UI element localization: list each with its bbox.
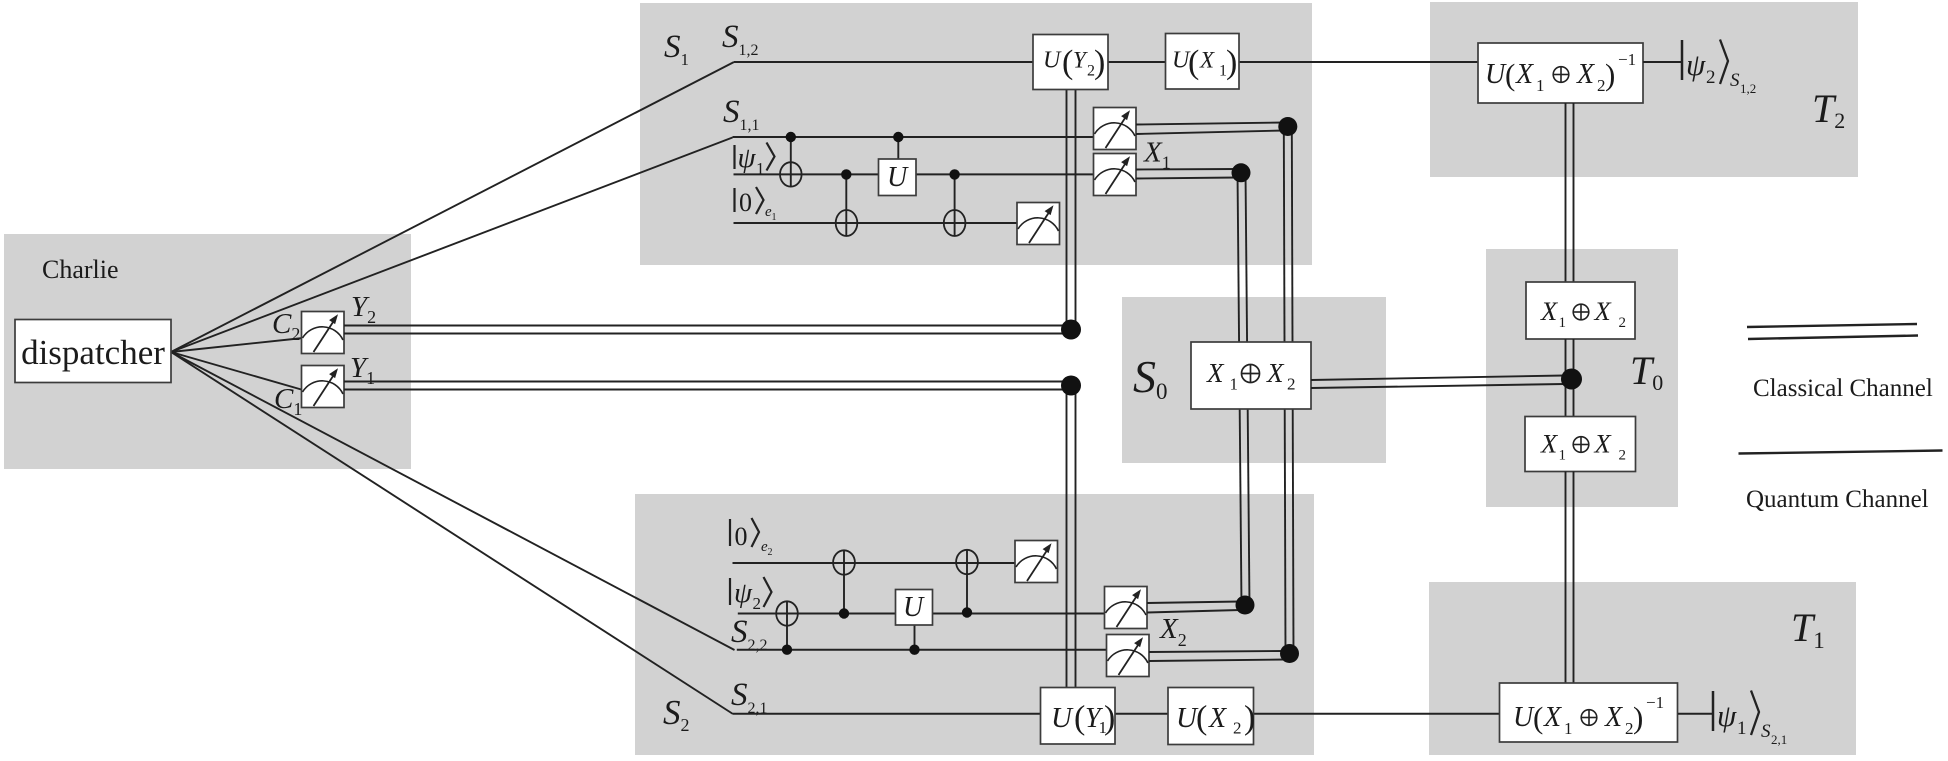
svg-text:X: X <box>1604 702 1623 733</box>
legend quantum channel symbol <box>1739 451 1943 454</box>
svg-text:X: X <box>1540 429 1559 459</box>
svg-text:X: X <box>1515 59 1534 90</box>
svg-text:ψ: ψ <box>1686 47 1706 82</box>
svg-text:): ) <box>1244 700 1255 737</box>
classical vertical pair T0 lower box to T1 <box>1566 472 1574 684</box>
svg-text:X: X <box>1576 59 1595 90</box>
cnot3: control on psi1 target on e1 <box>944 169 966 236</box>
svg-text:−1: −1 <box>1646 693 1664 712</box>
ket |psi1> label <box>735 142 775 178</box>
region S0 <box>1122 297 1386 463</box>
gate U (S1) with control on S1,1 <box>879 132 917 196</box>
wire fan: dispatcher to C2 meter <box>171 338 303 352</box>
node psi2-meter junction <box>1236 596 1255 615</box>
gate U(X1+X2)^-1 (T1) <box>1500 683 1678 742</box>
node X1 junction <box>1232 163 1251 182</box>
svg-text:ψ: ψ <box>734 577 753 609</box>
meter C2 <box>302 312 345 354</box>
gate U(X2) <box>1168 688 1255 745</box>
meter S2,2 <box>1107 635 1150 677</box>
svg-text:U: U <box>903 592 925 623</box>
cnot1: control on S1,1 target on psi1 <box>780 132 802 187</box>
ket |psi2> label <box>730 577 772 613</box>
svg-text:2: 2 <box>768 547 773 558</box>
svg-text:ψ: ψ <box>738 142 757 174</box>
svg-text:(: ( <box>1196 700 1207 737</box>
meter e2 <box>1015 541 1058 583</box>
classical double line Y2 to node <box>344 326 1064 334</box>
svg-text:2: 2 <box>1287 375 1296 394</box>
wire S2,2 <box>737 649 1107 651</box>
ket |0>e1 label <box>735 187 777 223</box>
svg-text:U: U <box>887 162 909 193</box>
classical double line S0 output to T0 node <box>1311 376 1564 389</box>
region T2 <box>1430 2 1858 177</box>
svg-text:X: X <box>1208 703 1227 734</box>
gate X1 xor X2 (S0) <box>1191 342 1311 409</box>
svg-text:X: X <box>1594 296 1613 326</box>
classical vertical pair X1 node down to psi2-meter node <box>1238 172 1250 605</box>
wire fan: dispatcher to S2,1 <box>171 352 733 714</box>
classical vertical pair T0 upper box to node <box>1566 339 1574 379</box>
meter S1,1 <box>1094 108 1137 150</box>
ket |psi2>S12 output <box>1682 40 1756 97</box>
svg-text:X: X <box>1543 702 1562 733</box>
svg-text:Y: Y <box>1073 48 1088 73</box>
gate U(Y2) <box>1033 35 1108 90</box>
wire T2 box to ket <box>1643 61 1681 63</box>
svg-text:0: 0 <box>735 522 748 551</box>
svg-text:2: 2 <box>753 594 762 613</box>
classical double line Y1 to node <box>344 382 1064 390</box>
svg-text:Classical Channel: Classical Channel <box>1753 375 1933 402</box>
svg-text:1: 1 <box>1737 718 1747 739</box>
svg-text:S: S <box>1730 70 1740 91</box>
wire e2 <box>733 562 1016 564</box>
gate X1 xor X2 (T0 upper) <box>1526 282 1635 339</box>
gate U (S2) with control on S2,2 <box>896 590 933 655</box>
region Charlie <box>4 234 411 469</box>
gate U(X1+X2)^-1 (T2) <box>1478 43 1643 103</box>
node S1,1-meter junction <box>1278 117 1297 136</box>
svg-text:): ) <box>1633 700 1643 735</box>
svg-text:U: U <box>1043 48 1062 74</box>
wire e1 <box>734 222 1018 224</box>
svg-text:): ) <box>1094 44 1105 81</box>
meter e1 <box>1017 203 1060 245</box>
wire S1,2 <box>734 61 1478 63</box>
gate X1 xor X2 (T0 lower) <box>1525 417 1636 472</box>
meter psi2 <box>1105 587 1148 629</box>
svg-text:dispatcher: dispatcher <box>21 333 165 372</box>
node Y2 junction <box>1061 320 1081 340</box>
svg-text:1: 1 <box>772 212 777 223</box>
region S1 <box>640 3 1312 265</box>
svg-text:U: U <box>1485 59 1507 90</box>
svg-text:2: 2 <box>1619 448 1627 464</box>
svg-text:U: U <box>1051 702 1074 734</box>
wire psi1 <box>734 173 1094 175</box>
node T0 junction <box>1561 369 1582 390</box>
cnot-b: target on e2 control on psi2 <box>833 550 855 618</box>
svg-text:1: 1 <box>1230 375 1239 394</box>
wire T1 box to ket <box>1678 713 1712 715</box>
svg-text:X: X <box>1199 48 1215 73</box>
classical double line Y1 node down to U(Y1) <box>1067 389 1076 688</box>
classical double line meter X1 to node <box>1136 169 1238 179</box>
classical double line meter psi2 to node <box>1147 602 1240 613</box>
wire fan: dispatcher to C1 meter <box>171 352 303 390</box>
svg-text:−1: −1 <box>1618 50 1636 69</box>
svg-text:U: U <box>1513 702 1535 733</box>
cnot-a: target on psi2 control on S2,2 <box>776 601 798 655</box>
ket |0>e2 label <box>730 518 773 558</box>
gate U(X1) <box>1166 34 1240 90</box>
wire fan: dispatcher to S2,2 <box>171 352 735 650</box>
meter X1 <box>1094 154 1137 196</box>
meter C1 <box>302 366 345 408</box>
node S2,2-meter junction <box>1280 644 1299 663</box>
classical vertical pair node to T0 lower box <box>1566 379 1574 417</box>
wire fan: dispatcher to S1,1 <box>171 138 733 353</box>
svg-text:1: 1 <box>1559 448 1567 464</box>
cnot-c: target on e2 control on psi2 <box>956 550 978 618</box>
svg-text:2: 2 <box>1619 315 1627 331</box>
svg-text:1: 1 <box>1564 719 1573 738</box>
svg-text:2: 2 <box>1706 67 1716 88</box>
wire fan: dispatcher to S1,2 <box>171 62 734 352</box>
legend classical channel symbol <box>1747 324 1918 339</box>
classical double line U(Y2) down to Y2 node <box>1067 90 1076 326</box>
wire S2,1 <box>733 713 1041 715</box>
svg-text:(: ( <box>1188 44 1199 81</box>
classical double line meter S1,1 to node <box>1136 123 1284 135</box>
svg-text:2,1: 2,1 <box>1771 732 1787 747</box>
svg-text:1: 1 <box>1536 76 1545 95</box>
svg-text:X: X <box>1266 358 1285 388</box>
svg-text:X: X <box>1540 296 1559 326</box>
svg-text:(: ( <box>1074 700 1085 737</box>
svg-text:X: X <box>1594 429 1613 459</box>
region T0 <box>1486 249 1678 507</box>
node Y1 junction <box>1061 376 1081 396</box>
classical vertical pair T2 to T0 upper box <box>1566 103 1574 282</box>
region S2 <box>635 494 1314 755</box>
svg-text:S: S <box>1761 721 1771 742</box>
dispatcher box <box>15 320 171 383</box>
classical vertical pair right node down to S2,2-meter node <box>1284 126 1294 654</box>
svg-text:1: 1 <box>1559 315 1567 331</box>
svg-text:Quantum Channel: Quantum Channel <box>1746 486 1929 513</box>
classical double line meter S2,2 to node <box>1149 651 1285 661</box>
wire psi2 <box>738 613 1105 615</box>
svg-text:Charlie: Charlie <box>42 255 119 284</box>
wire S1,1 <box>733 136 1094 138</box>
svg-text:): ) <box>1605 57 1615 92</box>
svg-text:1,2: 1,2 <box>1740 81 1756 96</box>
svg-text:(: ( <box>1062 44 1073 81</box>
svg-text:(: ( <box>1533 700 1543 735</box>
svg-text:X: X <box>1206 358 1225 388</box>
cnot2: control on psi1 target on e1 <box>836 169 858 236</box>
ket |psi1>S21 output <box>1713 691 1787 748</box>
svg-text:ψ: ψ <box>1717 698 1737 733</box>
svg-text:0: 0 <box>739 188 752 217</box>
gate U(Y1) <box>1041 688 1116 745</box>
svg-text:2: 2 <box>1233 719 1242 738</box>
svg-text:(: ( <box>1505 57 1515 92</box>
svg-text:): ) <box>1104 700 1115 737</box>
region T1 <box>1429 582 1856 755</box>
svg-text:): ) <box>1226 44 1237 81</box>
